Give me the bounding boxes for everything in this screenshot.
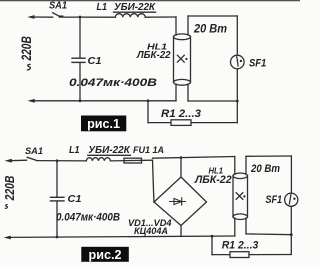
svg-text:рис.1: рис.1 [87, 117, 120, 131]
caption box рис.2 [81, 247, 129, 262]
svg-text:рис.2: рис.2 [89, 248, 122, 262]
svg-text:0.047мк·400В: 0.047мк·400В [56, 212, 120, 224]
starter SF1 (fig1) [231, 55, 245, 69]
wire: lamp top-right pin to starter (fig2) [246, 156, 291, 193]
inductor L1 coil (fig2) [86, 155, 130, 161]
wire: starter bottom down to R1 node [236, 69, 238, 123]
svg-text:L1: L1 [69, 145, 80, 156]
capacitor C1 (fig2) [51, 161, 65, 237]
arrow left (top supply, fig2) [5, 159, 27, 163]
svg-text:SF1: SF1 [266, 194, 283, 206]
arrow left (bottom supply, fig2) [4, 235, 235, 240]
wire: SA1 to L1 with C1 junction [60, 16, 116, 19]
wire: lamp bottom-right pin to right bus (fig2) [246, 218, 293, 236]
starter SF1 (fig2) [285, 193, 298, 206]
svg-text:C1: C1 [68, 194, 82, 205]
label ~ (fig2, drawn tilde) [5, 205, 8, 209]
inductor L1 coil [114, 12, 156, 17]
arrow left (top supply, fig1) [27, 15, 52, 19]
label ~ (fig1, drawn tilde) [27, 64, 31, 69]
svg-text:C1: C1 [88, 56, 102, 67]
svg-text:SA1: SA1 [49, 0, 67, 11]
wire: bridge output to lamp top-left pin (fig2) [153, 156, 235, 177]
svg-text:R1 2...3: R1 2...3 [222, 240, 259, 252]
capacitor C1 (fig1) [72, 17, 85, 101]
lamp HL1 tube (fig1) [174, 34, 191, 85]
svg-text:220В: 220В [2, 176, 17, 202]
switch SA1 (fig2) [27, 157, 36, 160]
fuse FU1 [110, 158, 152, 163]
svg-text:ЛБК-22: ЛБК-22 [136, 49, 171, 61]
svg-text:20 Вт: 20 Вт [250, 163, 280, 175]
caption box рис.1 [81, 116, 126, 132]
resistor R1 branch (fig2) [212, 236, 291, 257]
wire: lamp bottom-right pin to starter bottom [188, 84, 239, 102]
wire: starter bottom to R1 node (fig2) [290, 206, 292, 254]
svg-text:0.047мк·400В: 0.047мк·400В [69, 77, 157, 89]
svg-text:R1 2...3: R1 2...3 [161, 108, 201, 120]
wire: SA1 to L1 with C1 junction (fig2) [37, 159, 87, 162]
lamp cathode cross mark (fig1) [177, 55, 187, 62]
resistor R1 branch (fig1) [148, 101, 237, 126]
wire: fuse node down to bridge left corner [153, 160, 154, 202]
svg-text:20 Вт: 20 Вт [193, 22, 227, 36]
wire: bridge bottom corner to bottom wire [180, 226, 182, 237]
svg-text:L1: L1 [97, 2, 108, 13]
wire: L1 to lamp top-left pin [145, 17, 176, 35]
wire: lamp bottom-left pin (fig2) [234, 218, 236, 236]
svg-text:SF1: SF1 [249, 58, 266, 70]
svg-text:FU1 1A: FU1 1A [133, 145, 164, 155]
diode bridge VD1...VD4 [154, 177, 207, 226]
svg-text:УБИ-22К: УБИ-22К [88, 145, 131, 156]
svg-text:УБИ-22К: УБИ-22К [114, 2, 156, 13]
lamp cathode cross mark (fig2) [236, 193, 245, 200]
svg-text:220В: 220В [18, 36, 34, 61]
arrow left (bottom supply, fig1) [28, 99, 177, 103]
switch SA1 [53, 13, 63, 16]
svg-text:SA1: SA1 [25, 146, 43, 156]
lamp HL1 tube (fig2) [233, 173, 248, 220]
svg-text:ЛБК-22: ЛБК-22 [194, 174, 232, 186]
wire: lamp bottom-left pin [175, 84, 177, 101]
wire: lamp top-right pin to starter (20 W loop) [188, 16, 237, 55]
svg-text:КЦ404А: КЦ404А [134, 226, 168, 236]
